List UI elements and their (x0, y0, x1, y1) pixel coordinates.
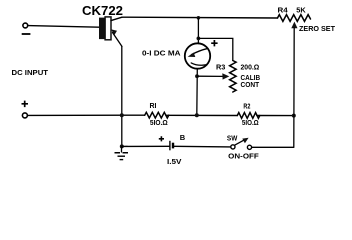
svg-text:R2: R2 (243, 101, 250, 110)
wire bottom rail centre (174, 145, 231, 148)
svg-text:0-I DC MA: 0-I DC MA (142, 48, 181, 57)
wire right rail vertical (293, 28, 295, 147)
wire bottom rail left (122, 145, 169, 147)
battery plus sign (159, 136, 164, 141)
svg-text:5IO.Ω: 5IO.Ω (150, 118, 168, 127)
svg-text:SW: SW (227, 133, 238, 142)
wire mid rail left (28, 114, 145, 116)
wire meter top (197, 18, 199, 44)
minus sign (22, 33, 31, 35)
node meter bottom / mid rail (195, 113, 199, 117)
R4 wiper arrow (291, 22, 297, 29)
wire mid rail right (257, 115, 294, 117)
svg-text:5K: 5K (296, 6, 306, 15)
transistor emitter arrow (113, 33, 123, 47)
terminal plus (DC input bottom) (22, 101, 29, 108)
wire mid rail centre (166, 114, 238, 116)
svg-text:RI: RI (150, 101, 157, 110)
svg-text:CK722: CK722 (82, 3, 123, 18)
transistor body outline (105, 17, 111, 40)
svg-text:CONT: CONT (241, 80, 260, 89)
wire bottom rail right (252, 146, 294, 148)
svg-text:R4: R4 (278, 6, 289, 15)
meter scale arc (191, 63, 207, 65)
transistor Q1 CK722 base bar (99, 18, 105, 39)
resistor R2 510 ohm (237, 113, 260, 119)
meter M1 0-1 DC MA (185, 43, 210, 68)
svg-text:ON-OFF: ON-OFF (228, 151, 259, 160)
terminal minus (DC input top) (23, 23, 28, 28)
resistor R4 5K zero set (278, 15, 311, 22)
svg-text:5IO.Ω: 5IO.Ω (242, 118, 259, 127)
meter plus sign (211, 40, 217, 46)
node right rail / mid rail (292, 114, 296, 118)
svg-text:R3: R3 (216, 62, 225, 71)
wire meter bottom (196, 69, 199, 116)
wire collector (111, 17, 122, 20)
wire emitter vertical (121, 47, 123, 147)
resistor R1 510 ohm (145, 112, 169, 118)
svg-text:I.5V: I.5V (167, 157, 182, 166)
node emitter/mid rail (120, 113, 124, 117)
node meter/R3 top (197, 37, 201, 41)
wire top rail (122, 16, 278, 19)
svg-text:B: B (180, 133, 186, 142)
svg-text:DC INPUT: DC INPUT (12, 68, 49, 77)
meter needle (192, 48, 208, 54)
battery B 1.5V (169, 141, 171, 151)
resistor R3 200 ohm calib (230, 61, 237, 93)
node emitter / bottom rail (120, 144, 124, 148)
switch SW on-off (231, 145, 235, 149)
node top rail to meter (197, 16, 201, 20)
switch arm (235, 140, 245, 145)
node R3 wiper branch (195, 74, 199, 78)
svg-text:ZERO SET: ZERO SET (299, 24, 335, 33)
wire base input (28, 26, 99, 28)
R3 wiper arrow wire (197, 75, 223, 77)
svg-text:200.Ω: 200.Ω (241, 62, 260, 71)
ground (121, 146, 123, 152)
wire R3 top branch (198, 38, 232, 60)
